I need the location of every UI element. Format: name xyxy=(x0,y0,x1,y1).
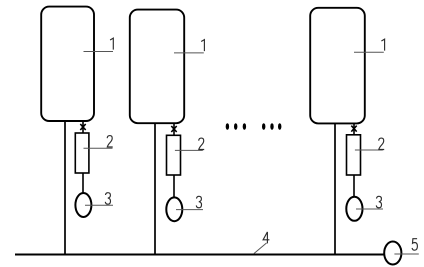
tank 1 (unit 1, left column) xyxy=(41,7,94,121)
ellipsis dots group 1 xyxy=(226,123,246,130)
leader line label 3 (right) xyxy=(356,208,383,210)
drop wire to sensor (right column) xyxy=(353,175,355,197)
sensor 3 (right column) xyxy=(346,197,362,221)
pump 5 xyxy=(384,242,401,265)
bus line 4 xyxy=(15,254,384,256)
leader line label 1 (right) xyxy=(354,51,384,53)
drop wire to sensor (middle column) xyxy=(173,175,175,198)
label 3 (left) xyxy=(105,193,110,204)
leader line label 2 (middle) xyxy=(175,149,203,151)
leader line label 1 (middle) xyxy=(174,52,204,54)
leader line label 3 (left) xyxy=(85,204,113,206)
label 1 (middle) xyxy=(201,40,204,52)
sensor 3 (left column) xyxy=(75,193,91,217)
leader line label 2 (left) xyxy=(84,147,113,149)
label 3 (middle) xyxy=(196,196,201,207)
valve X (right column) xyxy=(351,126,356,132)
valve wire (left column) xyxy=(82,121,84,134)
device 2 (left column) xyxy=(75,133,89,173)
label 2 (middle) xyxy=(199,138,205,149)
leader line label 2 (right) xyxy=(355,149,383,151)
riser wire (middle column) xyxy=(154,123,156,255)
tank 1 (unit 3, right column) xyxy=(310,8,365,124)
valve X (left column) xyxy=(80,124,85,130)
leader line label 1 (left) xyxy=(84,51,114,53)
valve wire (right column) xyxy=(353,123,355,135)
leader line label 5 xyxy=(394,253,418,255)
device 2 (middle column) xyxy=(167,135,181,175)
riser wire (left column) xyxy=(64,121,66,255)
label 5 xyxy=(412,239,417,250)
label 3 (right) xyxy=(376,196,381,207)
tank 1 (unit 2, middle column) xyxy=(130,10,184,124)
ellipsis dots group 2 xyxy=(262,123,281,130)
label 1 (left) xyxy=(110,38,113,50)
leader line label 4 xyxy=(254,243,267,254)
label 2 (left) xyxy=(107,136,113,147)
label 2 (right) xyxy=(379,138,385,149)
valve wire (middle column) xyxy=(173,123,175,135)
leader line label 3 (middle) xyxy=(176,209,203,211)
valve X (middle column) xyxy=(171,126,176,132)
sensor 3 (middle column) xyxy=(166,197,182,221)
device 2 (right column) xyxy=(347,135,361,175)
label 4 xyxy=(263,232,269,244)
label 1 (right) xyxy=(381,39,384,51)
drop wire to sensor (left column) xyxy=(82,173,84,193)
riser wire (right column) xyxy=(334,123,336,255)
